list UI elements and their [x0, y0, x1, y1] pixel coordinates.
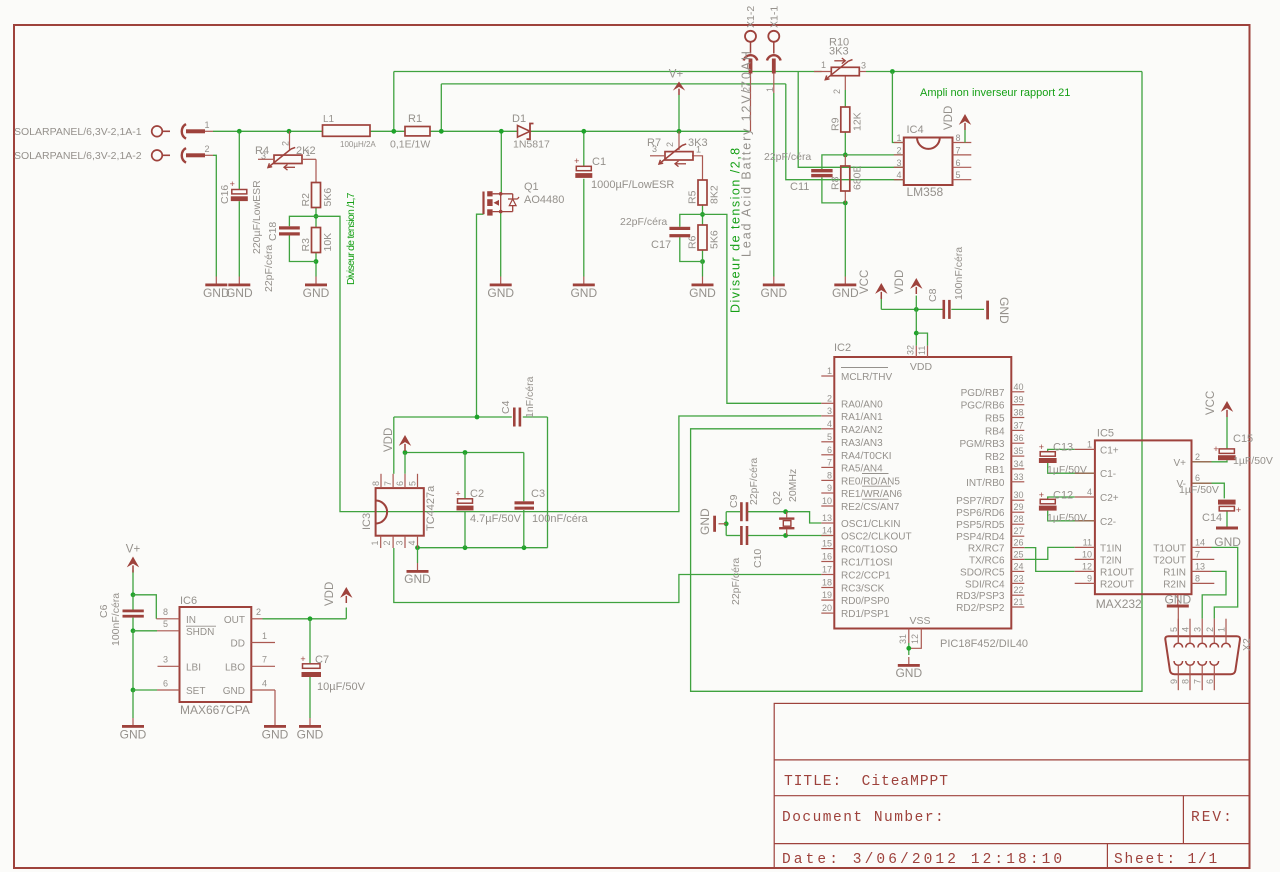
svg-text:GND: GND — [1214, 535, 1241, 549]
svg-text:3: 3 — [861, 61, 866, 71]
svg-text:8: 8 — [1181, 679, 1191, 684]
svg-text:1: 1 — [896, 133, 901, 143]
svg-text:5: 5 — [1169, 627, 1179, 632]
svg-text:2: 2 — [665, 142, 675, 147]
svg-text:13: 13 — [822, 513, 832, 523]
svg-text:5K6: 5K6 — [322, 188, 334, 207]
svg-text:RD1/PSP1: RD1/PSP1 — [841, 609, 890, 620]
svg-text:20MHz: 20MHz — [787, 469, 799, 502]
svg-text:GND: GND — [223, 686, 245, 697]
svg-text:GND: GND — [832, 286, 859, 300]
svg-text:R9: R9 — [829, 117, 841, 131]
svg-text:R1: R1 — [408, 113, 422, 125]
svg-text:8: 8 — [1195, 573, 1200, 583]
svg-text:22pF/céra: 22pF/céra — [764, 151, 811, 163]
svg-text:+: + — [455, 488, 460, 498]
svg-text:12: 12 — [1082, 561, 1092, 571]
svg-text:VSS: VSS — [909, 615, 930, 627]
svg-text:GND: GND — [404, 572, 431, 586]
svg-text:1: 1 — [204, 120, 209, 130]
svg-text:4: 4 — [827, 419, 832, 429]
svg-text:8: 8 — [163, 607, 168, 617]
svg-text:RC1/T1OSI: RC1/T1OSI — [841, 558, 893, 569]
svg-text:GND: GND — [698, 508, 712, 535]
svg-text:GND: GND — [226, 286, 253, 300]
svg-text:VDD: VDD — [894, 270, 906, 294]
svg-text:IN: IN — [186, 615, 196, 626]
svg-text:+: + — [574, 156, 579, 166]
svg-text:OSC1/CLKIN: OSC1/CLKIN — [841, 519, 900, 530]
svg-text:2: 2 — [382, 540, 392, 545]
svg-text:RA2/AN2: RA2/AN2 — [841, 425, 883, 436]
svg-text:T1IN: T1IN — [1100, 543, 1122, 554]
svg-text:17: 17 — [822, 565, 832, 575]
svg-text:TC4427a: TC4427a — [425, 485, 437, 531]
svg-text:Document Number:: Document Number: — [782, 810, 945, 826]
svg-text:38: 38 — [1014, 408, 1024, 418]
svg-text:RC0/T1OSO: RC0/T1OSO — [841, 545, 898, 556]
svg-text:C3: C3 — [531, 488, 545, 500]
svg-text:220µF/LowESR: 220µF/LowESR — [251, 180, 263, 254]
svg-text:5K6: 5K6 — [709, 230, 721, 249]
svg-text:L1: L1 — [323, 114, 335, 125]
svg-text:R2: R2 — [300, 193, 312, 207]
svg-text:15: 15 — [822, 539, 832, 549]
svg-text:27: 27 — [1014, 526, 1024, 536]
svg-text:3: 3 — [163, 655, 168, 665]
svg-text:V+: V+ — [126, 544, 141, 556]
svg-text:40: 40 — [1014, 382, 1024, 392]
svg-text:REV:: REV: — [1191, 810, 1234, 826]
svg-text:4.7µF/50V: 4.7µF/50V — [470, 513, 522, 525]
svg-text:TX/RC6: TX/RC6 — [969, 555, 1005, 566]
svg-text:OUT: OUT — [224, 615, 245, 626]
svg-text:+: + — [300, 654, 305, 664]
svg-text:10: 10 — [822, 496, 832, 506]
svg-text:INT/RB0: INT/RB0 — [966, 478, 1005, 489]
svg-text:R1IN: R1IN — [1163, 567, 1186, 578]
svg-text:9: 9 — [1169, 679, 1179, 684]
svg-text:GND: GND — [689, 286, 716, 300]
svg-text:LM358: LM358 — [907, 185, 944, 199]
svg-text:C1+: C1+ — [1100, 445, 1119, 456]
svg-text:0,1E/1W: 0,1E/1W — [390, 139, 430, 151]
svg-text:1: 1 — [765, 87, 775, 92]
svg-text:GND: GND — [570, 286, 597, 300]
svg-text:6: 6 — [395, 481, 405, 486]
svg-text:1N5817: 1N5817 — [513, 139, 550, 151]
svg-text:RA1/AN1: RA1/AN1 — [841, 412, 883, 423]
svg-text:5: 5 — [827, 432, 832, 442]
svg-text:GND: GND — [303, 286, 330, 300]
svg-text:GND: GND — [297, 728, 324, 742]
svg-text:C15: C15 — [1233, 433, 1253, 445]
svg-text:RA5/AN4: RA5/AN4 — [841, 463, 883, 474]
svg-text:SHDN: SHDN — [186, 627, 214, 638]
svg-text:18: 18 — [822, 578, 832, 588]
svg-text:RA0/AN0: RA0/AN0 — [841, 399, 883, 410]
svg-text:RD3/PSP3: RD3/PSP3 — [956, 591, 1005, 602]
svg-text:C14: C14 — [1202, 512, 1222, 524]
svg-text:2: 2 — [256, 607, 261, 617]
svg-text:X1-1: X1-1 — [768, 6, 780, 28]
svg-text:PGD/RB7: PGD/RB7 — [961, 388, 1005, 399]
svg-text:100nF/céra: 100nF/céra — [953, 247, 965, 300]
svg-text:RA3/AN3: RA3/AN3 — [841, 438, 883, 449]
svg-text:R1OUT: R1OUT — [1100, 567, 1134, 578]
svg-text:C6: C6 — [98, 604, 110, 618]
svg-text:T1OUT: T1OUT — [1153, 543, 1186, 554]
svg-text:10µF/50V: 10µF/50V — [317, 681, 366, 693]
svg-text:Diviseur de tension /1,7: Diviseur de tension /1,7 — [345, 192, 357, 285]
svg-text:1µF/50V: 1µF/50V — [1233, 455, 1273, 467]
svg-text:RB2: RB2 — [985, 452, 1005, 463]
svg-text:MCLR/THV: MCLR/THV — [841, 372, 892, 383]
svg-text:C18: C18 — [267, 222, 279, 241]
svg-text:PGC/RB6: PGC/RB6 — [961, 401, 1005, 412]
svg-text:5: 5 — [163, 619, 168, 629]
svg-text:9: 9 — [827, 483, 832, 493]
svg-text:SET: SET — [186, 686, 205, 697]
svg-text:V+: V+ — [669, 69, 684, 81]
svg-text:PSP5/RD5: PSP5/RD5 — [956, 520, 1005, 531]
svg-text:C13: C13 — [1053, 442, 1073, 454]
svg-text:13: 13 — [1195, 561, 1205, 571]
svg-text:AO4480: AO4480 — [524, 194, 564, 206]
svg-text:4: 4 — [896, 170, 901, 180]
svg-text:GND: GND — [120, 728, 147, 742]
svg-text:R2IN: R2IN — [1163, 579, 1186, 590]
svg-text:1: 1 — [1087, 439, 1092, 449]
svg-text:22pF/céra: 22pF/céra — [263, 245, 275, 292]
svg-text:20: 20 — [822, 603, 832, 613]
svg-text:RB1: RB1 — [985, 465, 1005, 476]
svg-text:6: 6 — [956, 158, 961, 168]
svg-text:11: 11 — [1083, 537, 1092, 547]
svg-text:2: 2 — [281, 141, 291, 146]
svg-text:C7: C7 — [315, 654, 329, 666]
svg-text:R5: R5 — [687, 190, 699, 204]
svg-text:OSC2/CLKOUT: OSC2/CLKOUT — [841, 532, 912, 543]
svg-text:IC2: IC2 — [834, 342, 851, 354]
svg-text:100nF/céra: 100nF/céra — [110, 593, 122, 646]
svg-text:7: 7 — [383, 481, 393, 486]
svg-text:100µH/2A: 100µH/2A — [340, 140, 376, 149]
svg-text:Lead Acid Battery 12V/70AH: Lead Acid Battery 12V/70AH — [740, 49, 754, 257]
svg-text:RC3/SCK: RC3/SCK — [841, 584, 885, 595]
svg-text:4: 4 — [1181, 627, 1191, 632]
svg-text:SOLARPANEL/6,3V-2,1A-2: SOLARPANEL/6,3V-2,1A-2 — [14, 150, 142, 162]
svg-text:14: 14 — [1195, 537, 1205, 547]
svg-text:C1-: C1- — [1100, 469, 1116, 480]
svg-text:1nF/céra: 1nF/céra — [524, 376, 536, 418]
svg-text:MAX232: MAX232 — [1096, 597, 1142, 611]
svg-text:VDD: VDD — [910, 361, 933, 373]
svg-text:14: 14 — [822, 526, 832, 536]
svg-text:PIC18F452/DIL40: PIC18F452/DIL40 — [940, 638, 1028, 650]
svg-text:RE1/WR/AN6: RE1/WR/AN6 — [841, 489, 903, 500]
svg-text:1µF/50V: 1µF/50V — [1047, 464, 1087, 476]
svg-text:R6: R6 — [687, 235, 699, 249]
svg-text:C8: C8 — [927, 288, 939, 302]
svg-text:22: 22 — [1014, 585, 1024, 595]
svg-text:2: 2 — [1195, 452, 1200, 462]
svg-text:7: 7 — [956, 145, 961, 155]
svg-text:R2OUT: R2OUT — [1100, 579, 1134, 590]
svg-text:T2OUT: T2OUT — [1153, 555, 1186, 566]
svg-text:V+: V+ — [1173, 458, 1186, 469]
svg-text:10: 10 — [1082, 549, 1092, 559]
svg-text:C9: C9 — [728, 494, 740, 508]
svg-text:GND: GND — [487, 286, 514, 300]
svg-text:10K: 10K — [322, 233, 334, 252]
svg-text:IC3: IC3 — [361, 513, 373, 530]
svg-text:9: 9 — [1087, 573, 1092, 583]
svg-text:1: 1 — [1217, 627, 1227, 632]
svg-text:31: 31 — [898, 634, 908, 644]
svg-text:1: 1 — [827, 366, 832, 376]
svg-text:DD: DD — [231, 639, 245, 650]
svg-text:+: + — [1213, 444, 1218, 454]
svg-text:34: 34 — [1014, 459, 1024, 469]
svg-text:3: 3 — [1193, 627, 1203, 632]
svg-text:PSP6/RD6: PSP6/RD6 — [956, 508, 1005, 519]
svg-text:28: 28 — [1014, 514, 1024, 524]
svg-text:PSP4/RD4: PSP4/RD4 — [956, 532, 1005, 543]
svg-text:GND: GND — [895, 666, 922, 680]
svg-text:1: 1 — [696, 145, 701, 155]
svg-text:VDD: VDD — [383, 428, 395, 452]
svg-text:GND: GND — [760, 286, 787, 300]
svg-text:6: 6 — [827, 445, 832, 455]
svg-text:1µF/50V: 1µF/50V — [1179, 484, 1219, 496]
svg-text:VCC: VCC — [859, 270, 871, 294]
svg-text:GND: GND — [262, 728, 289, 742]
svg-text:5: 5 — [956, 170, 961, 180]
svg-text:SDI/RC4: SDI/RC4 — [965, 579, 1005, 590]
svg-text:2: 2 — [827, 393, 832, 403]
svg-text:GND: GND — [997, 297, 1011, 324]
svg-text:39: 39 — [1014, 395, 1024, 405]
svg-text:LBI: LBI — [186, 662, 201, 673]
svg-text:Ampli non inverseur rapport 21: Ampli non inverseur rapport 21 — [920, 87, 1070, 99]
svg-text:19: 19 — [822, 590, 832, 600]
svg-text:Q1: Q1 — [524, 181, 539, 193]
svg-text:16: 16 — [822, 552, 832, 562]
svg-text:22pF/céra: 22pF/céra — [730, 558, 742, 605]
svg-text:VDD: VDD — [943, 106, 955, 130]
svg-text:C4: C4 — [500, 400, 512, 414]
svg-text:C2: C2 — [470, 488, 484, 500]
svg-text:7: 7 — [827, 457, 832, 467]
svg-text:37: 37 — [1014, 420, 1024, 430]
svg-text:4: 4 — [262, 679, 267, 689]
svg-text:12: 12 — [910, 634, 920, 644]
svg-text:C2-: C2- — [1100, 517, 1116, 528]
svg-text:8: 8 — [371, 481, 381, 486]
svg-text:IC5: IC5 — [1097, 428, 1114, 440]
svg-text:24: 24 — [1014, 561, 1024, 571]
svg-text:+: + — [1039, 442, 1044, 452]
svg-text:5: 5 — [408, 481, 418, 486]
svg-text:X1-2: X1-2 — [745, 6, 757, 28]
svg-text:3: 3 — [652, 144, 657, 154]
svg-text:32: 32 — [906, 345, 916, 355]
svg-text:C16: C16 — [219, 185, 231, 204]
svg-text:3: 3 — [827, 406, 832, 416]
svg-text:1: 1 — [821, 60, 826, 70]
svg-text:6: 6 — [163, 679, 168, 689]
svg-text:+: + — [1039, 490, 1044, 500]
svg-text:RD2/PSP2: RD2/PSP2 — [956, 603, 1005, 614]
svg-text:6: 6 — [1195, 473, 1200, 483]
svg-text:30: 30 — [1014, 490, 1024, 500]
svg-text:7: 7 — [262, 655, 267, 665]
svg-text:3K3: 3K3 — [829, 46, 849, 58]
svg-text:29: 29 — [1014, 502, 1024, 512]
svg-text:RX/RC7: RX/RC7 — [968, 544, 1005, 555]
svg-text:RE2/CS/AN7: RE2/CS/AN7 — [841, 502, 900, 513]
svg-text:680E: 680E — [851, 165, 863, 190]
svg-text:3: 3 — [896, 158, 901, 168]
svg-text:C1: C1 — [592, 156, 606, 168]
svg-text:8: 8 — [956, 133, 961, 143]
svg-text:C12: C12 — [1053, 489, 1073, 501]
svg-text:RB5: RB5 — [985, 414, 1005, 425]
svg-text:1: 1 — [370, 540, 380, 545]
svg-text:R3: R3 — [300, 238, 312, 252]
svg-text:7: 7 — [1195, 549, 1200, 559]
svg-text:26: 26 — [1014, 538, 1024, 548]
svg-text:3: 3 — [395, 540, 405, 545]
svg-text:T2IN: T2IN — [1100, 555, 1122, 566]
svg-text:2: 2 — [204, 144, 209, 154]
svg-text:22pF/céra: 22pF/céra — [748, 458, 760, 505]
svg-text:33: 33 — [1014, 472, 1024, 482]
svg-text:Sheet: 1/1: Sheet: 1/1 — [1114, 852, 1219, 868]
svg-text:+: + — [1236, 505, 1241, 515]
svg-text:4: 4 — [1087, 487, 1092, 497]
svg-text:SDO/RC5: SDO/RC5 — [960, 567, 1005, 578]
svg-text:1: 1 — [262, 631, 267, 641]
svg-text:C10: C10 — [752, 549, 764, 568]
svg-text:6: 6 — [1205, 679, 1215, 684]
svg-text:21: 21 — [1014, 597, 1024, 607]
svg-text:RC2/CCP1: RC2/CCP1 — [841, 571, 891, 582]
svg-text:7: 7 — [1193, 679, 1203, 684]
svg-text:Date: 3/06/2012 12:18:10: Date: 3/06/2012 12:18:10 — [782, 852, 1065, 868]
svg-text:PSP7/RD7: PSP7/RD7 — [956, 496, 1005, 507]
svg-text:C17: C17 — [651, 239, 671, 251]
svg-text:IC4: IC4 — [907, 124, 924, 136]
svg-text:11: 11 — [917, 346, 927, 355]
svg-text:36: 36 — [1014, 433, 1024, 443]
svg-text:C11: C11 — [790, 181, 809, 193]
svg-text:RB4: RB4 — [985, 426, 1005, 437]
svg-text:8: 8 — [827, 470, 832, 480]
svg-text:4: 4 — [407, 540, 417, 545]
svg-text:2: 2 — [832, 89, 842, 94]
svg-text:R8: R8 — [829, 176, 841, 190]
svg-text:2: 2 — [1205, 627, 1215, 632]
svg-text:RD0/PSP0: RD0/PSP0 — [841, 596, 890, 607]
svg-text:100nF/céra: 100nF/céra — [532, 513, 589, 525]
svg-text:25: 25 — [1014, 549, 1024, 559]
svg-text:Q2: Q2 — [771, 491, 783, 505]
svg-text:RA4/T0CKI: RA4/T0CKI — [841, 451, 892, 462]
svg-text:C2+: C2+ — [1100, 493, 1119, 504]
svg-text:MAX667CPA: MAX667CPA — [180, 703, 250, 717]
svg-text:22pF/céra: 22pF/céra — [620, 216, 667, 228]
svg-text:8K2: 8K2 — [709, 185, 721, 204]
svg-text:23: 23 — [1014, 573, 1024, 583]
svg-text:1000µF/LowESR: 1000µF/LowESR — [591, 179, 674, 191]
svg-text:1: 1 — [306, 148, 311, 158]
svg-text:GND: GND — [1164, 593, 1191, 607]
svg-text:35: 35 — [1014, 446, 1024, 456]
svg-text:1µF/50V: 1µF/50V — [1047, 512, 1087, 524]
svg-text:IC6: IC6 — [180, 595, 197, 607]
svg-text:LBO: LBO — [225, 662, 245, 673]
svg-text:12K: 12K — [851, 112, 863, 131]
svg-text:PGM/RB3: PGM/RB3 — [959, 439, 1004, 450]
svg-text:D1: D1 — [512, 113, 526, 125]
svg-text:SOLARPANEL/6,3V-2,1A-1: SOLARPANEL/6,3V-2,1A-1 — [14, 126, 142, 138]
svg-text:TITLE: CiteaMPPT: TITLE: CiteaMPPT — [784, 774, 949, 790]
svg-text:VCC: VCC — [1205, 391, 1217, 415]
svg-text:2: 2 — [896, 145, 901, 155]
svg-text:X2: X2 — [1241, 638, 1253, 651]
svg-text:VDD: VDD — [324, 582, 336, 606]
